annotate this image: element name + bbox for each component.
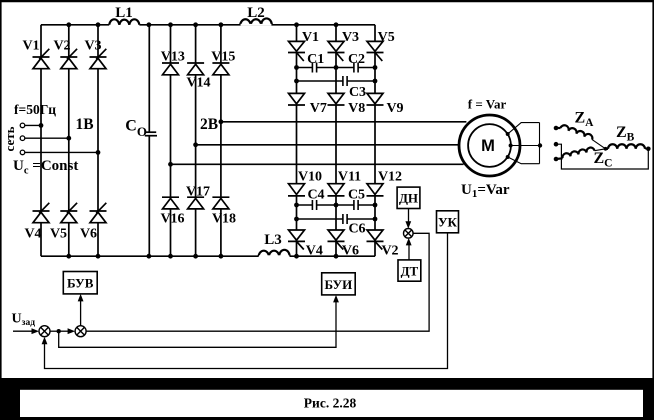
thyristor V3 (inverter) <box>328 41 345 61</box>
svg-text:V5: V5 <box>378 30 395 45</box>
svg-text:V2: V2 <box>53 39 70 54</box>
capacitor C1 <box>312 63 316 73</box>
thyristor V4 (inverter) <box>288 230 305 250</box>
svg-text:V18: V18 <box>212 211 236 226</box>
impedance ZC <box>556 148 606 159</box>
mains input terminal 2 <box>20 136 25 141</box>
svg-text:C2: C2 <box>348 52 365 67</box>
svg-text:ZA: ZA <box>575 110 595 130</box>
svg-text:V3: V3 <box>342 30 359 45</box>
wire: bottom DC bus (-) <box>41 255 375 257</box>
svg-text:V11: V11 <box>338 170 361 185</box>
node: rotor bus middle <box>538 143 542 147</box>
wire: commutation row 4 <box>297 218 376 220</box>
svg-text:УК: УК <box>438 215 458 230</box>
node dots row 2 <box>294 79 377 84</box>
svg-text:V6: V6 <box>342 244 359 259</box>
thyristor V2 (rectifier) <box>60 49 77 69</box>
summing junction J1 <box>39 326 50 337</box>
wire: multiplier feedback to J2 <box>86 233 429 331</box>
svg-text:V14: V14 <box>186 76 210 91</box>
diode V16 <box>162 197 179 209</box>
mains input terminal 1 <box>20 123 25 128</box>
svg-text:f = Var: f = Var <box>468 96 507 111</box>
caption band <box>0 378 654 420</box>
thyristor V4 (rectifier) <box>33 203 50 223</box>
diode V14 <box>187 63 204 75</box>
wire: rotor lead bottom <box>508 157 540 164</box>
arrowhead into БУИ <box>333 295 339 303</box>
svg-text:V17: V17 <box>186 184 210 199</box>
svg-text:V3: V3 <box>84 39 101 54</box>
wire: ДН down to multiplier <box>408 209 410 225</box>
arrowhead into J2 <box>68 328 76 334</box>
wire: rotor lead middle <box>511 145 540 147</box>
svg-text:V6: V6 <box>80 227 97 242</box>
inductor L1 <box>109 19 139 25</box>
node dots row 1 <box>294 65 377 70</box>
wire: rotor lead top <box>508 123 540 134</box>
block ДН <box>397 187 420 208</box>
wire: J2 up to БУВ <box>80 298 82 326</box>
diode V12 <box>367 184 384 196</box>
wire: motor phase line bottom <box>171 163 464 165</box>
node: rotor right terminal <box>646 147 651 152</box>
svg-text:M: M <box>481 137 495 155</box>
node: rotor star point <box>604 147 608 151</box>
wire: reference input arrow <box>13 330 33 332</box>
wire: feedback diode column c <box>220 25 222 256</box>
capacitor C5 <box>354 200 358 210</box>
svg-text:V13: V13 <box>161 50 185 65</box>
svg-text:L1: L1 <box>115 5 133 21</box>
wire: motor phase line middle <box>196 144 459 146</box>
arrowhead into J1 <box>32 328 40 334</box>
svg-text:БУВ: БУВ <box>67 276 94 291</box>
wire: motor phase line top <box>221 121 467 123</box>
svg-text:V16: V16 <box>160 211 184 226</box>
thyristor V5 (rectifier) <box>60 203 77 223</box>
svg-text:C5: C5 <box>348 188 365 203</box>
wire: inverter phase column B <box>335 25 337 256</box>
diode V9 <box>367 93 384 105</box>
thyristor V6 (inverter) <box>328 230 345 250</box>
svg-text:V10: V10 <box>298 170 322 185</box>
svg-text:2B: 2B <box>200 116 218 133</box>
motor M stator circle <box>459 115 520 176</box>
node: output tap bottom <box>168 162 173 167</box>
diode V13 <box>162 63 179 75</box>
wire: feedback diode column a <box>170 25 172 256</box>
svg-text:C4: C4 <box>307 188 324 203</box>
diode V17 <box>187 197 204 209</box>
junction dots on top bus <box>66 22 338 27</box>
wire: rectifier phase column c <box>97 25 99 256</box>
wire: mains phase 2 <box>25 137 69 139</box>
impedance ZA <box>556 125 606 149</box>
diode V10 <box>288 184 305 196</box>
mains input terminal 3 <box>20 150 25 155</box>
svg-text:V1: V1 <box>302 30 319 45</box>
wire: rotor lead bus bar <box>539 123 541 164</box>
rotor terminal 3 <box>554 157 559 162</box>
capacitor CO <box>145 132 157 136</box>
capacitor C2 <box>354 63 358 73</box>
arrowhead into J1 bottom <box>42 337 48 345</box>
svg-text:Рис. 2.28: Рис. 2.28 <box>304 396 357 411</box>
svg-text:C6: C6 <box>348 222 365 237</box>
wire: rectifier phase column b <box>68 25 70 256</box>
svg-text:Uзад: Uзад <box>12 311 36 328</box>
diode V8 <box>328 93 345 105</box>
node: output tap top <box>219 119 224 124</box>
svg-text:V7: V7 <box>310 101 327 116</box>
svg-text:БУИ: БУИ <box>325 277 353 292</box>
svg-text:CO: CO <box>125 118 147 140</box>
wire: filter capacitor column <box>148 25 150 256</box>
svg-text:L2: L2 <box>247 5 265 21</box>
svg-text:1B: 1B <box>76 116 94 133</box>
wire: commutation row 2 <box>297 80 376 82</box>
thyristor V2 (inverter) <box>367 230 384 250</box>
svg-text:V9: V9 <box>386 101 403 116</box>
svg-text:V2: V2 <box>381 244 398 259</box>
node: phase 1 tap <box>39 123 44 128</box>
svg-text:ZB: ZB <box>616 124 635 144</box>
wire: ДТ up to multiplier <box>408 243 410 260</box>
svg-text:ДТ: ДТ <box>401 263 419 278</box>
rotor terminal 2 <box>554 142 559 147</box>
svg-text:C1: C1 <box>307 52 324 67</box>
svg-text:V15: V15 <box>211 50 235 65</box>
rotor brush taps <box>506 132 513 159</box>
wire: rectifier phase column a <box>40 25 42 256</box>
arrowhead into multiplier top <box>405 221 411 229</box>
wire: УК feedback to J1 <box>45 233 448 369</box>
thyristor V5 (inverter) <box>367 41 384 61</box>
node: branch dot <box>57 329 61 333</box>
svg-text:V5: V5 <box>50 227 67 242</box>
wire: inverter phase column A <box>296 25 298 256</box>
svg-text:V8: V8 <box>348 101 365 116</box>
block ДТ <box>398 260 421 281</box>
thyristor V6 (rectifier) <box>90 203 107 223</box>
wire: mains phase 3 <box>25 151 98 153</box>
impedance ZB <box>606 144 649 149</box>
svg-text:ZC: ZC <box>594 150 613 170</box>
svg-text:V1: V1 <box>22 39 39 54</box>
svg-text:U1=Var: U1=Var <box>461 182 510 200</box>
thyristor V1 (rectifier) <box>33 49 50 69</box>
rotor terminal 1 <box>554 126 559 131</box>
multiplier junction (ДН×ДТ) <box>404 229 414 239</box>
diode V18 <box>212 197 229 209</box>
junction dots on bottom bus <box>66 254 338 259</box>
node dots row 4 <box>294 217 377 222</box>
svg-text:L3: L3 <box>264 232 282 248</box>
arrowhead into multiplier bottom <box>406 238 412 246</box>
thyristor V3 (rectifier) <box>90 49 107 69</box>
inductor L2 <box>240 18 272 25</box>
wire: commutation row 3 <box>297 204 376 206</box>
node: output tap middle <box>193 142 198 147</box>
wire: branch down to БУИ <box>59 300 336 347</box>
capacitor C3 <box>343 76 347 86</box>
svg-text:V4: V4 <box>306 244 323 259</box>
node: phase 2 tap <box>66 136 71 141</box>
block БУИ <box>322 273 356 295</box>
diode V15 <box>212 63 229 75</box>
block БУВ <box>63 272 97 294</box>
thyristor V1 (inverter) <box>288 41 305 61</box>
wire: commutation row 1 <box>297 67 376 69</box>
svg-text:V4: V4 <box>24 227 41 242</box>
wire: mains phase 1 <box>25 124 41 126</box>
node: phase 3 tap <box>96 150 101 155</box>
svg-text:сеть: сеть <box>2 126 17 151</box>
svg-text:C3: C3 <box>349 85 366 100</box>
block УК <box>437 211 459 233</box>
node dots row 3 <box>294 203 377 208</box>
wire: rotor return branch <box>556 144 648 169</box>
diode V7 <box>288 93 305 105</box>
summing junction J2 <box>75 326 86 337</box>
svg-text:V12: V12 <box>378 170 402 185</box>
svg-text:f=50Гц: f=50Гц <box>14 102 56 117</box>
diode V11 <box>328 184 345 196</box>
wire: inverter phase column C <box>374 25 376 256</box>
capacitor C6 <box>343 214 347 224</box>
svg-text:ДН: ДН <box>399 191 418 206</box>
wire: feedback diode column b <box>195 25 197 256</box>
arrowhead into БУВ <box>78 294 84 302</box>
wire: top DC bus (+) <box>41 24 375 26</box>
inductor L3 <box>259 250 290 257</box>
wire: branch to J2 arrow <box>59 330 69 332</box>
capacitor C4 <box>312 200 316 210</box>
svg-text:Uc =Const: Uc =Const <box>13 158 78 177</box>
wire: J1 to branch node <box>50 330 59 332</box>
